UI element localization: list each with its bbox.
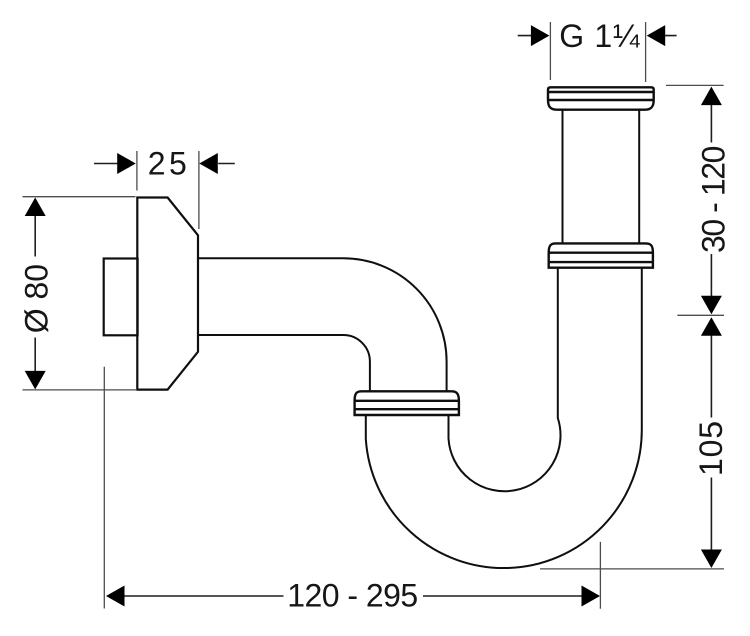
svg-text:Ø 80: Ø 80: [18, 264, 54, 333]
svg-text:105: 105: [693, 421, 729, 476]
svg-text:120 - 295: 120 - 295: [287, 578, 418, 614]
svg-text:30 - 120: 30 - 120: [696, 146, 732, 254]
svg-text:G 1¼: G 1¼: [559, 18, 641, 54]
